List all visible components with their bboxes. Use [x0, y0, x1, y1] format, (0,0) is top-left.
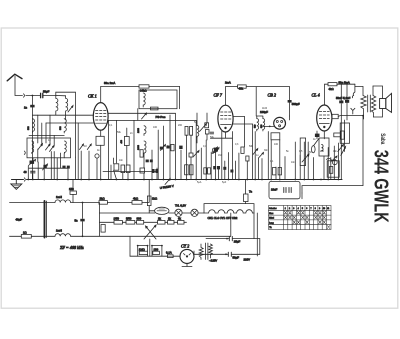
dial lamp 1	[175, 209, 182, 216]
wire	[218, 169, 220, 180]
right tall wire down	[302, 116, 363, 193]
wire	[55, 92, 57, 95]
right vertical power	[259, 239, 261, 255]
wire	[289, 116, 291, 120]
svg-text:1MΩ: 1MΩ	[139, 248, 145, 252]
svg-text:8: 8	[315, 208, 316, 210]
wire	[56, 158, 58, 180]
svg-text:11: 11	[327, 208, 329, 210]
capacitor	[67, 166, 70, 169]
small cap right	[334, 133, 341, 137]
svg-text:2: 2	[289, 208, 290, 210]
component circle	[279, 125, 281, 127]
coil 500 (left)	[28, 119, 34, 133]
wire	[96, 113, 107, 115]
svg-text:CK 1: CK 1	[88, 94, 97, 99]
resistor	[208, 168, 211, 174]
capacitor plates	[210, 132, 213, 134]
transformer secondary	[371, 86, 375, 117]
CL4 below	[323, 131, 325, 139]
wire	[344, 120, 346, 152]
wire	[53, 152, 55, 180]
capacitor	[43, 165, 46, 168]
wire	[60, 153, 62, 168]
svg-text:CY 2: CY 2	[181, 243, 189, 248]
wire	[15, 76, 23, 96]
wire IF line 2 right	[71, 235, 231, 237]
TA resistor vertical	[101, 225, 105, 233]
wire	[146, 226, 157, 239]
wire	[319, 114, 329, 116]
wire	[127, 173, 129, 180]
resistor	[139, 251, 147, 254]
capacitor C-ant 50pF	[41, 93, 57, 97]
svg-text:~125V: ~125V	[209, 259, 217, 263]
wire	[100, 145, 102, 179]
CB2 coupling: vertical + cap 500pF	[289, 87, 291, 116]
wire	[96, 122, 107, 124]
fuse 0,1A	[168, 255, 174, 258]
svg-text:5n: 5n	[75, 219, 79, 223]
resistor v	[241, 147, 244, 153]
junction	[82, 235, 84, 237]
svg-text:40: 40	[24, 170, 28, 174]
svg-text:50nF 5,3nF: 50nF 5,3nF	[336, 96, 351, 100]
svg-text:CL 4: CL 4	[312, 93, 320, 98]
svg-text:30n: 30n	[264, 149, 269, 152]
resistor	[244, 194, 248, 202]
wire	[323, 211, 326, 214]
wire below CF7	[210, 137, 232, 139]
wire	[41, 123, 43, 146]
resistor	[70, 191, 76, 194]
wire	[330, 158, 332, 180]
wire	[322, 145, 324, 152]
wire	[338, 115, 363, 118]
capacitor blob	[213, 166, 216, 169]
wire	[74, 157, 76, 179]
wire	[333, 146, 335, 180]
wire	[88, 151, 90, 180]
gang coil left	[32, 141, 34, 154]
svg-text:100pF: 100pF	[260, 110, 268, 114]
gang coil right	[64, 141, 66, 154]
switch arrows right of CF7	[253, 149, 258, 155]
transformer core	[368, 95, 371, 112]
wire	[46, 122, 93, 124]
svg-text:3: 3	[293, 208, 294, 210]
svg-text:4kΩ: 4kΩ	[133, 197, 138, 201]
wire	[297, 221, 300, 224]
resistor	[319, 138, 329, 156]
resistor	[341, 131, 344, 139]
svg-text:1/50: 1/50	[114, 217, 120, 221]
svg-text:10n: 10n	[291, 161, 296, 164]
resistor 1k from bus	[148, 180, 150, 197]
resistor below CK1	[96, 136, 104, 145]
resistor	[126, 165, 130, 173]
wire	[323, 221, 326, 224]
wire	[244, 117, 246, 148]
svg-text:5/50: 5/50	[126, 217, 132, 221]
wire coils to CB2	[263, 125, 274, 127]
wire	[284, 157, 286, 180]
oscillator coil	[143, 93, 145, 107]
svg-text:900: 900	[137, 217, 142, 221]
verticals CB2 zone	[270, 140, 272, 180]
rectifier bottom wire	[182, 263, 192, 266]
component circle	[332, 160, 337, 165]
verticals CF7 zone to bus	[200, 148, 202, 180]
wire	[32, 174, 34, 180]
junction	[269, 126, 271, 128]
coils 310/310	[255, 119, 259, 131]
wire	[151, 150, 153, 180]
variable inductor arrow	[200, 124, 207, 132]
bus junction dots	[27, 179, 339, 181]
mains resistor zigzag	[199, 247, 203, 259]
wire	[37, 162, 39, 180]
CL4 anode stem	[324, 84, 326, 105]
capacitor	[339, 101, 343, 104]
wire	[43, 158, 45, 180]
wire	[319, 123, 329, 125]
wire	[323, 156, 325, 180]
caps pair mid	[185, 126, 188, 135]
resistor 2k on line1	[99, 201, 107, 205]
CK1 cathode stem down	[100, 130, 102, 136]
wire	[269, 210, 332, 224]
break connector left mid	[24, 151, 25, 154]
wire bus2 to coils	[255, 87, 257, 116]
wire	[53, 136, 55, 147]
wire	[80, 151, 82, 180]
wire	[126, 128, 128, 165]
wire	[49, 115, 51, 144]
speaker loop wires	[355, 86, 363, 88]
svg-text:150: 150	[69, 187, 74, 191]
wire chain to cap A	[230, 213, 232, 237]
svg-text:50pF: 50pF	[43, 89, 50, 93]
RC loop 180	[152, 246, 162, 257]
svg-text:1000: 1000	[138, 144, 140, 150]
wire	[258, 158, 260, 180]
wire	[186, 135, 188, 179]
wire	[221, 115, 232, 117]
svg-text:Schalter: Schalter	[269, 207, 277, 210]
tube CB2 (circle)	[274, 117, 286, 129]
resistor in osc box	[151, 107, 159, 110]
svg-text:500pF: 500pF	[292, 102, 300, 106]
wire	[323, 216, 326, 219]
small boxes mid left	[114, 164, 119, 170]
wire	[319, 118, 329, 120]
wire	[319, 221, 322, 224]
wire	[267, 132, 269, 180]
wire	[101, 86, 180, 88]
wire	[316, 131, 318, 139]
divider rail	[100, 221, 187, 223]
wire	[115, 120, 117, 163]
tube CK1	[93, 103, 108, 131]
wire	[32, 158, 34, 161]
wire	[87, 144, 91, 150]
coil 1000 b	[138, 141, 146, 153]
resistor	[204, 168, 207, 174]
mains transformer core	[205, 243, 208, 260]
wire	[146, 196, 155, 213]
wire	[45, 201, 47, 238]
switch small mid	[161, 145, 166, 151]
wire	[289, 216, 292, 219]
wire	[179, 87, 181, 109]
CL4 right resistor	[332, 114, 338, 118]
tube CL4	[317, 105, 332, 131]
wire	[314, 138, 319, 145]
wire	[137, 109, 139, 121]
node A junction	[32, 95, 34, 97]
wire antenna to C1	[26, 95, 40, 97]
transformer primary	[361, 87, 366, 120]
resistor on line2	[21, 235, 31, 239]
svg-text:200: 200	[178, 124, 183, 127]
antenna coil L2	[57, 96, 68, 116]
switch arrow osc	[142, 113, 147, 119]
CF7 right lines	[233, 116, 244, 118]
verticals CK1 zone to bus	[108, 120, 110, 179]
trimmer circle	[212, 148, 217, 153]
resistor	[178, 221, 185, 225]
svg-text:1000: 1000	[138, 127, 140, 133]
wire	[346, 84, 348, 120]
wire IF line 2	[10, 235, 56, 237]
wire	[133, 120, 135, 179]
capacitor blob	[150, 160, 153, 163]
wire	[331, 156, 338, 162]
svg-text:4: 4	[298, 208, 299, 210]
wire	[224, 161, 226, 180]
wire	[373, 86, 383, 99]
wire	[306, 216, 309, 219]
wire	[169, 115, 171, 180]
wire vertical x78	[77, 123, 79, 180]
trimmer cap arrows in gang	[38, 144, 43, 150]
wire	[319, 216, 322, 219]
svg-text:TH. 6,3V: TH. 6,3V	[175, 204, 186, 208]
Y pickup symbol	[351, 108, 355, 114]
wire	[156, 168, 158, 180]
wire	[301, 216, 304, 219]
wire	[259, 153, 264, 159]
heater rail	[100, 212, 205, 214]
wire	[245, 202, 247, 204]
wire	[238, 153, 240, 180]
capacitor blob	[223, 167, 226, 170]
svg-text:100: 100	[274, 143, 279, 146]
IF coil 1	[55, 200, 71, 203]
resistor 40k top bus2	[238, 85, 247, 88]
line B 125V	[194, 253, 260, 255]
capacitor blob	[230, 170, 233, 173]
wire	[63, 154, 65, 158]
left edge of network	[99, 203, 101, 237]
wire	[114, 158, 117, 180]
wire	[303, 142, 305, 180]
wire	[195, 120, 197, 179]
tone network box right	[340, 123, 349, 143]
boxes above bus x185-192	[185, 165, 189, 175]
wire	[190, 135, 192, 179]
phone jack curl	[352, 84, 355, 98]
switch below bus	[165, 179, 170, 185]
junction	[161, 245, 163, 247]
electrolytic oval	[312, 146, 316, 153]
resistor	[168, 221, 175, 225]
svg-text:14kΩ: 14kΩ	[140, 89, 147, 93]
svg-text:CB 2: CB 2	[268, 93, 277, 98]
wire	[56, 91, 76, 93]
junction	[323, 126, 325, 128]
mains winding right	[209, 244, 213, 258]
dial lamp 2	[191, 209, 198, 216]
wire	[157, 209, 167, 211]
wire	[210, 152, 212, 180]
barretter U50 oval	[155, 207, 169, 214]
resistor 400	[121, 137, 129, 146]
resistor 4k top bus3	[328, 83, 337, 86]
junction	[226, 238, 228, 240]
tuning gang box	[27, 138, 71, 158]
wire	[293, 216, 296, 219]
wire	[229, 237, 232, 241]
cap white	[189, 153, 193, 157]
capacitor	[345, 100, 349, 103]
svg-text:100: 100	[153, 126, 158, 129]
CK1 right lines	[108, 112, 175, 114]
junction below transformer	[362, 115, 364, 117]
wire	[319, 211, 322, 214]
wire	[254, 132, 256, 180]
switch arrows right zone	[302, 154, 309, 162]
wire	[24, 178, 25, 181]
wire	[314, 211, 317, 214]
capacitor blob	[179, 146, 182, 149]
CF7 anode stem	[225, 87, 227, 106]
wire	[221, 118, 232, 120]
svg-text:50a 5mA: 50a 5mA	[339, 80, 350, 84]
right zone verticals	[299, 155, 301, 180]
wire	[184, 254, 191, 256]
junction	[82, 202, 84, 204]
trimmer below gang	[29, 160, 36, 166]
wire	[301, 211, 304, 214]
small box with circle	[327, 161, 339, 177]
svg-text:10n: 10n	[119, 159, 124, 162]
wire	[284, 188, 291, 193]
svg-text:0,1A: 0,1A	[166, 251, 172, 255]
IF coil 2	[55, 234, 71, 237]
svg-text:1: 1	[285, 208, 286, 210]
wire	[215, 148, 217, 180]
wire	[261, 159, 263, 180]
capacitor blobs left-mid	[62, 166, 65, 169]
wire	[301, 193, 303, 199]
capacitor blob	[146, 160, 149, 163]
wire	[149, 239, 151, 246]
wire	[327, 148, 329, 180]
wire	[284, 206, 327, 230]
svg-text:10n: 10n	[333, 150, 338, 153]
svg-text:Mittel: Mittel	[269, 217, 274, 220]
resistor	[205, 123, 209, 128]
junction	[151, 245, 153, 247]
heater cover wire	[204, 204, 254, 213]
svg-text:Lang: Lang	[269, 222, 273, 224]
wire	[45, 123, 47, 143]
wire	[279, 140, 281, 180]
CK1 left grid lines	[32, 114, 93, 116]
resistor	[171, 144, 174, 150]
svg-text:1M: 1M	[218, 154, 221, 157]
capacitor blob	[152, 169, 155, 173]
svg-text:220V: 220V	[244, 258, 251, 262]
wire	[297, 211, 300, 214]
svg-text:10nF: 10nF	[271, 188, 278, 192]
wire	[294, 142, 296, 180]
svg-text:1kΩ: 1kΩ	[152, 197, 157, 201]
capacitor blob	[166, 146, 169, 149]
table X marks	[284, 211, 330, 229]
resistor below CB2	[271, 133, 280, 140]
coil 1000 a	[138, 126, 146, 136]
wire	[373, 109, 382, 118]
side box left	[300, 138, 305, 166]
wire	[157, 130, 159, 180]
component circle	[276, 121, 278, 123]
mid small parts row	[140, 144, 220, 184]
wire	[337, 143, 339, 180]
resistor	[329, 167, 332, 174]
wire	[96, 119, 107, 121]
capacitor blob	[217, 166, 220, 169]
oscillator shield box	[139, 90, 177, 109]
junction	[137, 245, 139, 247]
wire	[289, 211, 292, 214]
resistor	[153, 251, 160, 254]
capacitor blob	[160, 147, 163, 150]
wire	[162, 126, 164, 180]
wire	[46, 144, 51, 150]
wire	[338, 145, 344, 152]
resistor 14k on top bus	[139, 85, 149, 88]
wire	[221, 131, 223, 180]
wire	[194, 244, 201, 254]
wire	[122, 173, 124, 180]
thick chassis bar	[44, 201, 46, 238]
svg-text:CK1 CL4 CY1 CF7 CB2: CK1 CL4 CY1 CF7 CB2	[208, 216, 238, 220]
switch stem into loops	[149, 246, 151, 257]
wire	[293, 221, 296, 224]
RC loop 1M	[138, 246, 148, 257]
wire right of coils	[65, 115, 67, 120]
CF7 left small parts	[197, 126, 199, 138]
svg-text:344 GWLK: 344 GWLK	[370, 150, 393, 223]
wire	[306, 221, 309, 224]
wire y171.5	[103, 171, 158, 173]
resistor 150 from bus	[72, 180, 74, 192]
speaker	[380, 93, 392, 112]
vertical wire x=75.4	[74, 92, 76, 157]
